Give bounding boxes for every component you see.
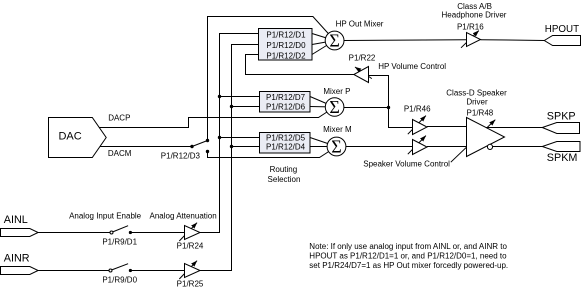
svg-text:P1/R24: P1/R24 <box>177 242 204 251</box>
svg-text:P1/R46: P1/R46 <box>404 105 431 114</box>
svg-text:P1/R12/D3: P1/R12/D3 <box>161 152 201 161</box>
svg-text:P1/R9/D0: P1/R9/D0 <box>102 276 137 285</box>
svg-text:SPKM: SPKM <box>547 152 578 164</box>
svg-text:Σ: Σ <box>331 136 341 156</box>
svg-text:P1/R25: P1/R25 <box>177 280 204 289</box>
svg-text:Analog Attenuation: Analog Attenuation <box>150 212 217 221</box>
svg-text:Σ: Σ <box>329 97 339 117</box>
svg-text:P1/R12/D5: P1/R12/D5 <box>266 133 306 142</box>
svg-text:Mixer P: Mixer P <box>323 87 350 96</box>
svg-text:P1/R48: P1/R48 <box>467 108 494 117</box>
svg-text:Speaker Volume Control: Speaker Volume Control <box>363 159 450 168</box>
svg-text:Driver: Driver <box>466 98 488 107</box>
svg-text:P1/R9/D1: P1/R9/D1 <box>102 238 137 247</box>
svg-text:P1/R12/D1: P1/R12/D1 <box>266 31 306 40</box>
svg-text:Σ: Σ <box>329 30 339 50</box>
svg-text:set P1/R24/D7=1 as HP Out mixe: set P1/R24/D7=1 as HP Out mixer forcedly… <box>309 261 508 270</box>
svg-text:DAC: DAC <box>58 131 81 143</box>
svg-text:AINR: AINR <box>4 252 30 264</box>
svg-text:Class-D Speaker: Class-D Speaker <box>446 88 507 97</box>
svg-text:Selection: Selection <box>268 175 301 184</box>
svg-text:Mixer M: Mixer M <box>323 125 352 134</box>
svg-text:SPKP: SPKP <box>547 111 576 123</box>
svg-text:HPOUT: HPOUT <box>545 24 579 35</box>
svg-text:HPOUT as P1/R12/D1=1 or, and P: HPOUT as P1/R12/D1=1 or, and P1/R12/D0=1… <box>309 252 507 261</box>
svg-text:P1/R12/D0: P1/R12/D0 <box>266 41 306 50</box>
svg-text:DACP: DACP <box>108 114 130 123</box>
svg-text:Analog Input Enable: Analog Input Enable <box>69 212 142 221</box>
svg-text:P1/R12/D6: P1/R12/D6 <box>266 103 306 112</box>
svg-text:Note: If only use analog input: Note: If only use analog input from AINL… <box>309 242 507 251</box>
svg-text:P1/R12/D2: P1/R12/D2 <box>266 51 306 60</box>
svg-text:Routing: Routing <box>270 165 298 174</box>
svg-text:Headphone Driver: Headphone Driver <box>442 11 507 20</box>
svg-text:HP Out Mixer: HP Out Mixer <box>336 20 384 29</box>
svg-text:P1/R12/D4: P1/R12/D4 <box>266 143 306 152</box>
svg-text:P1/R22: P1/R22 <box>349 53 376 62</box>
svg-text:P1/R16: P1/R16 <box>457 23 484 32</box>
svg-text:HP Volume Control: HP Volume Control <box>378 62 446 71</box>
svg-text:AINL: AINL <box>4 214 28 226</box>
svg-text:DACM: DACM <box>108 149 132 158</box>
svg-text:P1/R12/D7: P1/R12/D7 <box>266 93 306 102</box>
